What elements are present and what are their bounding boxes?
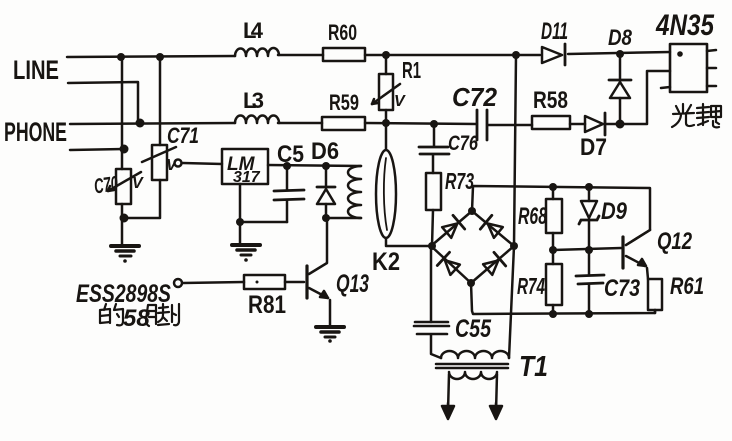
svg-text:R73: R73 bbox=[445, 168, 474, 194]
svg-text:V: V bbox=[132, 175, 144, 192]
svg-text:L4: L4 bbox=[243, 18, 264, 43]
svg-text:C55: C55 bbox=[455, 315, 492, 343]
svg-text:T1: T1 bbox=[519, 351, 548, 383]
svg-text:C73: C73 bbox=[604, 275, 641, 302]
svg-text:LINE: LINE bbox=[13, 55, 59, 85]
svg-text:R68: R68 bbox=[518, 203, 547, 230]
svg-text:PHONE: PHONE bbox=[4, 117, 67, 147]
svg-text:Q12: Q12 bbox=[657, 228, 692, 255]
svg-text:R59: R59 bbox=[329, 90, 359, 115]
svg-text:L3: L3 bbox=[243, 88, 264, 113]
svg-text:C72: C72 bbox=[452, 82, 498, 112]
svg-text:D9: D9 bbox=[601, 198, 628, 225]
svg-text:58: 58 bbox=[123, 305, 150, 332]
svg-text:D11: D11 bbox=[541, 18, 568, 45]
svg-text:D7: D7 bbox=[580, 134, 607, 161]
svg-text:V: V bbox=[394, 93, 406, 110]
svg-text:R60: R60 bbox=[328, 20, 357, 45]
svg-text:R61: R61 bbox=[670, 273, 704, 300]
svg-text:R81: R81 bbox=[248, 291, 286, 319]
svg-text:317: 317 bbox=[233, 169, 261, 186]
svg-text:ESS2898S: ESS2898S bbox=[76, 280, 171, 308]
svg-text:C71: C71 bbox=[167, 123, 199, 148]
svg-text:C70: C70 bbox=[93, 172, 120, 198]
svg-text:K2: K2 bbox=[372, 248, 400, 276]
svg-text:D6: D6 bbox=[311, 138, 339, 165]
svg-text:C5: C5 bbox=[277, 141, 304, 168]
svg-text:C76: C76 bbox=[448, 132, 478, 155]
svg-text:4N35: 4N35 bbox=[655, 9, 715, 42]
svg-text:Q13: Q13 bbox=[336, 270, 369, 298]
svg-text:D8: D8 bbox=[608, 25, 633, 50]
svg-text:R1: R1 bbox=[402, 57, 421, 83]
svg-text:R74: R74 bbox=[517, 273, 545, 299]
svg-text:V: V bbox=[166, 157, 178, 174]
svg-text:R58: R58 bbox=[533, 87, 568, 114]
